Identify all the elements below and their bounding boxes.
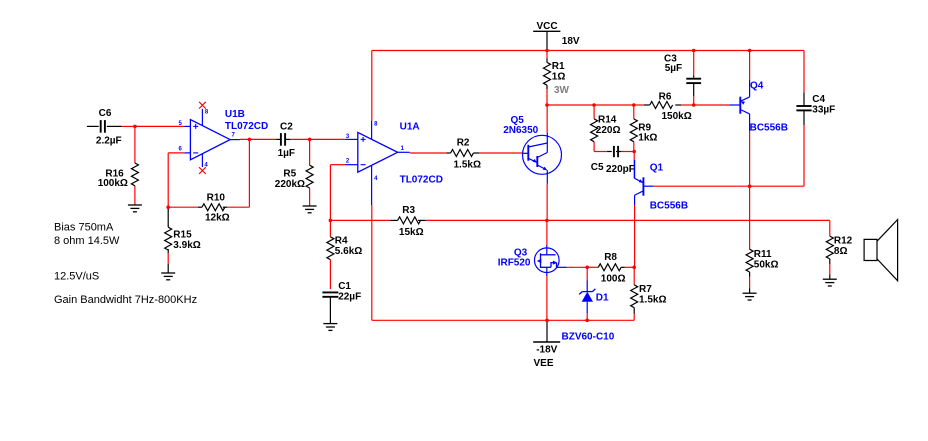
transistor Q5 xyxy=(523,135,562,174)
svg-text:R5: R5 xyxy=(283,169,296,180)
wire R3 leads xyxy=(390,219,397,221)
resistor R14 xyxy=(591,119,598,142)
wire bottom rail xyxy=(372,319,634,321)
node C5/R9 junction xyxy=(632,150,636,154)
resistor R12 xyxy=(826,236,833,259)
transistor Q4 xyxy=(739,97,741,114)
svg-text:TL072CD: TL072CD xyxy=(225,121,268,132)
diode D1 xyxy=(582,291,592,293)
wire R7 bottom lead xyxy=(633,308,635,314)
svg-text:3W: 3W xyxy=(554,85,570,96)
svg-text:100kΩ: 100kΩ xyxy=(98,178,128,189)
op-amp U1A xyxy=(358,132,398,172)
svg-text:Gain Bandwidht 7Hz-800KHz: Gain Bandwidht 7Hz-800KHz xyxy=(54,294,197,306)
wire base rail C3 to Q4 base xyxy=(694,104,730,106)
svg-text:Q4: Q4 xyxy=(750,81,764,92)
wire Q5 emitter xyxy=(546,184,548,221)
capacitor C5 xyxy=(613,146,615,157)
node R9 junction xyxy=(632,103,636,107)
svg-text:50kΩ: 50kΩ xyxy=(754,259,779,270)
wire mid rail right xyxy=(547,219,830,221)
wire U1A V- drop xyxy=(371,205,373,320)
wire junction to U1B +in xyxy=(135,125,184,127)
wire R7 top lead xyxy=(633,267,635,285)
svg-text:Bias 750mA: Bias 750mA xyxy=(54,221,114,233)
svg-text:R2: R2 xyxy=(457,138,470,149)
node Q1 base/Q4 coll junction xyxy=(748,184,752,188)
power VCC xyxy=(533,30,560,32)
capacitor C6 xyxy=(100,120,102,133)
resistor R4 xyxy=(329,220,331,236)
resistor R2 xyxy=(451,150,474,157)
wire feedback down from U1B out xyxy=(248,139,250,207)
wire R11 bottom to ground xyxy=(749,272,751,277)
node C3 bottom junction xyxy=(692,103,696,107)
ground xyxy=(303,205,317,207)
svg-text:220pF: 220pF xyxy=(606,164,635,175)
capacitor C2 xyxy=(280,133,282,146)
svg-text:BC556B: BC556B xyxy=(750,123,788,134)
node R8/R7 junction xyxy=(632,266,636,270)
svg-text:100Ω: 100Ω xyxy=(601,273,626,284)
ground xyxy=(323,323,337,325)
resistor R11 xyxy=(746,249,753,272)
wire base rail R1 to R14 xyxy=(547,104,594,106)
svg-text:1µF: 1µF xyxy=(278,148,295,159)
node VEE junction xyxy=(545,319,549,323)
svg-text:2N6350: 2N6350 xyxy=(503,125,538,136)
wire R10 right lead xyxy=(227,206,249,208)
wire Q3 drain xyxy=(546,220,548,245)
wire C4 top lead xyxy=(803,51,805,93)
resistor R9 xyxy=(630,119,637,142)
wire D1 bottom lead xyxy=(586,302,588,314)
svg-text:150kΩ: 150kΩ xyxy=(662,111,692,122)
resistor R16 xyxy=(131,163,138,186)
resistor R1 xyxy=(544,62,551,85)
node R3/R4 junction xyxy=(329,219,333,223)
wire node to C4 corner xyxy=(750,185,804,187)
wire R5 top xyxy=(309,139,311,165)
wire input stub xyxy=(87,125,99,127)
wire R14 bottom to C5 xyxy=(593,142,595,152)
wire Q4 collector down xyxy=(749,114,751,131)
svg-text:2.2µF: 2.2µF xyxy=(96,136,122,147)
svg-text:R10: R10 xyxy=(207,193,226,204)
svg-text:BC556B: BC556B xyxy=(650,201,688,212)
wire U1A -in corner xyxy=(330,164,345,166)
resistor R10 xyxy=(202,204,225,211)
wire C3 bottom lead xyxy=(693,84,695,96)
transistor Q1 xyxy=(642,177,644,195)
svg-text:12kΩ: 12kΩ xyxy=(205,213,230,224)
wire C6 right lead to junction xyxy=(107,125,122,127)
svg-text:C6: C6 xyxy=(99,108,112,119)
wire R8 right lead xyxy=(621,266,624,268)
wire base rail R9 to R6 xyxy=(634,104,644,106)
wire top rail xyxy=(372,50,804,52)
svg-text:D1: D1 xyxy=(596,293,609,304)
ground xyxy=(128,204,142,206)
svg-text:BZV60-C10: BZV60-C10 xyxy=(562,332,615,343)
capacitor C1 xyxy=(322,291,338,293)
svg-text:220Ω: 220Ω xyxy=(596,125,621,136)
svg-text:220kΩ: 220kΩ xyxy=(275,179,305,190)
wire mid rail corner to R12 xyxy=(829,220,831,236)
wire mid rail R3 to Q5 xyxy=(426,219,547,221)
wire R16 top xyxy=(134,126,136,163)
wire Q1 collector down xyxy=(634,195,636,205)
svg-text:1kΩ: 1kΩ xyxy=(638,133,657,144)
speaker xyxy=(864,239,877,260)
resistor R8 xyxy=(598,264,621,271)
no-connect X bottom U1B xyxy=(199,167,206,174)
svg-text:5.6kΩ: 5.6kΩ xyxy=(335,246,362,257)
resistor R5 xyxy=(306,165,313,188)
node feedback junction xyxy=(166,205,170,209)
svg-text:VCC: VCC xyxy=(537,21,558,32)
wire mid rail left xyxy=(330,219,390,221)
wire C5 right lead xyxy=(616,151,621,153)
wire node down to R11 xyxy=(749,186,751,249)
svg-text:R8: R8 xyxy=(604,252,617,263)
node input junction xyxy=(133,125,137,129)
capacitor C4 xyxy=(796,105,811,107)
capacitor C3 xyxy=(686,78,701,80)
node R14 junction xyxy=(592,103,596,107)
svg-text:U1A: U1A xyxy=(400,121,420,132)
ground xyxy=(743,292,757,294)
wire R1 top lead xyxy=(546,51,548,59)
wire R5 bottom to ground xyxy=(309,188,311,206)
wire R9 bottom lead xyxy=(633,142,635,152)
wire U1B -in corner xyxy=(168,152,184,154)
svg-text:U1B: U1B xyxy=(225,109,245,120)
svg-text:12.5V/uS: 12.5V/uS xyxy=(54,271,99,283)
svg-text:15kΩ: 15kΩ xyxy=(399,227,424,238)
svg-text:TL072CD: TL072CD xyxy=(400,175,443,186)
svg-text:33µF: 33µF xyxy=(812,104,835,115)
no-connect X top U1B xyxy=(199,102,206,109)
svg-text:VEE: VEE xyxy=(534,358,554,369)
svg-text:8Ω: 8Ω xyxy=(834,246,848,257)
wire R15 bottom to ground xyxy=(167,249,169,253)
wire Q4 emitter up xyxy=(749,51,751,81)
node Q4 emitter junction xyxy=(748,49,752,53)
wire D1 top lead xyxy=(586,267,588,280)
node VCC junction xyxy=(545,49,549,53)
wire VEE stub xyxy=(546,320,548,342)
svg-text:3.9kΩ: 3.9kΩ xyxy=(173,240,200,251)
wire U1B out to C2 xyxy=(240,138,276,140)
wire R14 top lead xyxy=(593,105,595,119)
svg-text:-18V: -18V xyxy=(536,345,557,356)
wire R2 to Q5 base xyxy=(473,152,479,154)
resistor R7 xyxy=(631,285,638,308)
wire R12 bottom to ground xyxy=(829,259,831,264)
svg-text:C4: C4 xyxy=(812,94,825,105)
wire base rail R6 to C3 xyxy=(675,104,681,106)
wire R15 top xyxy=(167,207,169,227)
wire junction to U1A +in xyxy=(310,138,345,140)
node output junction xyxy=(545,219,549,223)
resistor R3 xyxy=(398,217,421,224)
wire C2 to R5 junction xyxy=(285,138,290,140)
svg-text:IRF520: IRF520 xyxy=(498,258,531,269)
svg-text:1.5kΩ: 1.5kΩ xyxy=(639,294,666,305)
node R1/Q5 junction xyxy=(545,103,549,107)
wire C3 top lead xyxy=(693,51,695,76)
svg-text:R6: R6 xyxy=(659,92,672,103)
svg-text:5µF: 5µF xyxy=(665,63,682,74)
svg-text:22µF: 22µF xyxy=(338,291,361,302)
wire R16 bottom to ground xyxy=(134,186,136,205)
ground xyxy=(823,278,837,280)
resistor R15 xyxy=(165,227,172,250)
wire base rail R14 to R9 xyxy=(594,104,634,106)
wire U1A out to R2 xyxy=(410,152,447,154)
svg-text:1.5kΩ: 1.5kΩ xyxy=(454,159,481,170)
node C2/R5 junction xyxy=(308,138,312,142)
node U1B output junction xyxy=(248,138,252,142)
transistor Q3 xyxy=(535,248,560,273)
resistor R6 xyxy=(650,102,673,109)
wire Q1 base to node xyxy=(654,185,750,187)
ground xyxy=(161,272,175,274)
svg-text:1Ω: 1Ω xyxy=(552,71,566,82)
op-amp U1B xyxy=(190,120,230,160)
wire Q3 source lead right xyxy=(557,266,567,268)
node D1 bottom junction xyxy=(585,319,589,323)
power VEE xyxy=(533,341,560,343)
node D1 top junction xyxy=(585,266,589,270)
wire Q3 source down xyxy=(546,267,548,276)
wire R8 left lead xyxy=(587,266,598,268)
svg-text:8 ohm 14.5W: 8 ohm 14.5W xyxy=(54,235,120,247)
node C3 top junction xyxy=(692,49,696,53)
wire U1A V+ drop xyxy=(371,51,373,122)
wire R1 bottom lead xyxy=(546,85,548,89)
svg-text:C5: C5 xyxy=(591,162,604,173)
svg-text:R4: R4 xyxy=(335,235,348,246)
wire R10 left lead xyxy=(198,206,202,208)
wire VCC drop xyxy=(546,31,548,50)
svg-text:C2: C2 xyxy=(280,122,293,133)
wire Q5 collector xyxy=(546,105,548,133)
wire R9 top lead xyxy=(633,105,635,119)
svg-text:Q1: Q1 xyxy=(650,163,664,174)
svg-text:R3: R3 xyxy=(402,205,415,216)
svg-text:18V: 18V xyxy=(562,36,580,47)
wire Q1 emitter riser xyxy=(633,152,635,179)
